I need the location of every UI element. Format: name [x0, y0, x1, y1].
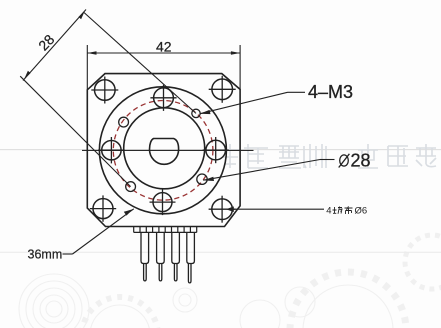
watermark faint horizontal line mid — [0, 149, 441, 151]
watermark gears bottom — [19, 235, 441, 328]
dim 28: arrows — [79, 11, 85, 19]
corner hole TR — [209, 76, 236, 103]
pin 1 — [141, 232, 149, 281]
label 4-dist leader — [228, 208, 324, 210]
dim 28: extension line to NE small hole — [84, 13, 196, 114]
label 4-dist CJK glyph jun — [333, 207, 343, 214]
corner hole BR — [209, 196, 236, 223]
svg-text:28: 28 — [351, 151, 371, 171]
pin 2 — [157, 232, 165, 281]
svg-text:Ø6: Ø6 — [355, 206, 368, 217]
svg-text:4: 4 — [326, 206, 331, 217]
label dia28 leader — [203, 160, 334, 181]
svg-text:36mm: 36mm — [28, 248, 63, 262]
watermark CJK text band — [220, 144, 436, 168]
corner hole BL — [90, 195, 116, 221]
bolt hole W — [98, 137, 124, 163]
label dia28 arrow — [203, 177, 214, 181]
label 4-dist arrow — [226, 206, 234, 212]
bolt hole E — [203, 137, 229, 163]
small hole NW — [119, 117, 129, 127]
dim 42: arrows — [87, 51, 96, 55]
dim 28: extension line to SW small hole — [20, 76, 130, 186]
pin 3 — [172, 232, 180, 281]
label 4-dist CJK glyph bu — [345, 206, 353, 214]
label 4-M3 arrow — [200, 110, 211, 114]
dim 42: dimension line — [87, 52, 240, 54]
horizontal centerline — [82, 149, 254, 151]
small hole NE — [192, 109, 200, 117]
label dia28 phi symbol — [339, 154, 350, 168]
outer circle (motor face) — [99, 87, 226, 214]
label 36mm leader — [63, 209, 134, 254]
small hole SE — [197, 174, 207, 184]
svg-text:4–M3: 4–M3 — [308, 82, 353, 102]
red dashed bolt circle — [113, 101, 213, 201]
inner circle (boss) — [124, 108, 205, 189]
small hole SW — [126, 182, 136, 192]
bolt hole S — [150, 189, 176, 215]
watermark faint horizontal line lower — [0, 251, 441, 253]
label 4-M3 leader — [200, 92, 306, 114]
corner hole TL — [91, 77, 118, 104]
pin 4 — [187, 232, 195, 283]
svg-text:42: 42 — [156, 38, 172, 54]
dim 42: extension lines — [87, 45, 240, 90]
flange square outline with chamfered corners — [87, 74, 240, 227]
dim 28: dimension line (diagonal) — [20, 10, 196, 187]
connector base comb — [134, 227, 197, 233]
bolt hole N — [150, 85, 176, 111]
label 36mm arrow — [124, 209, 133, 215]
center shaft hole (flat-top) — [150, 139, 179, 165]
